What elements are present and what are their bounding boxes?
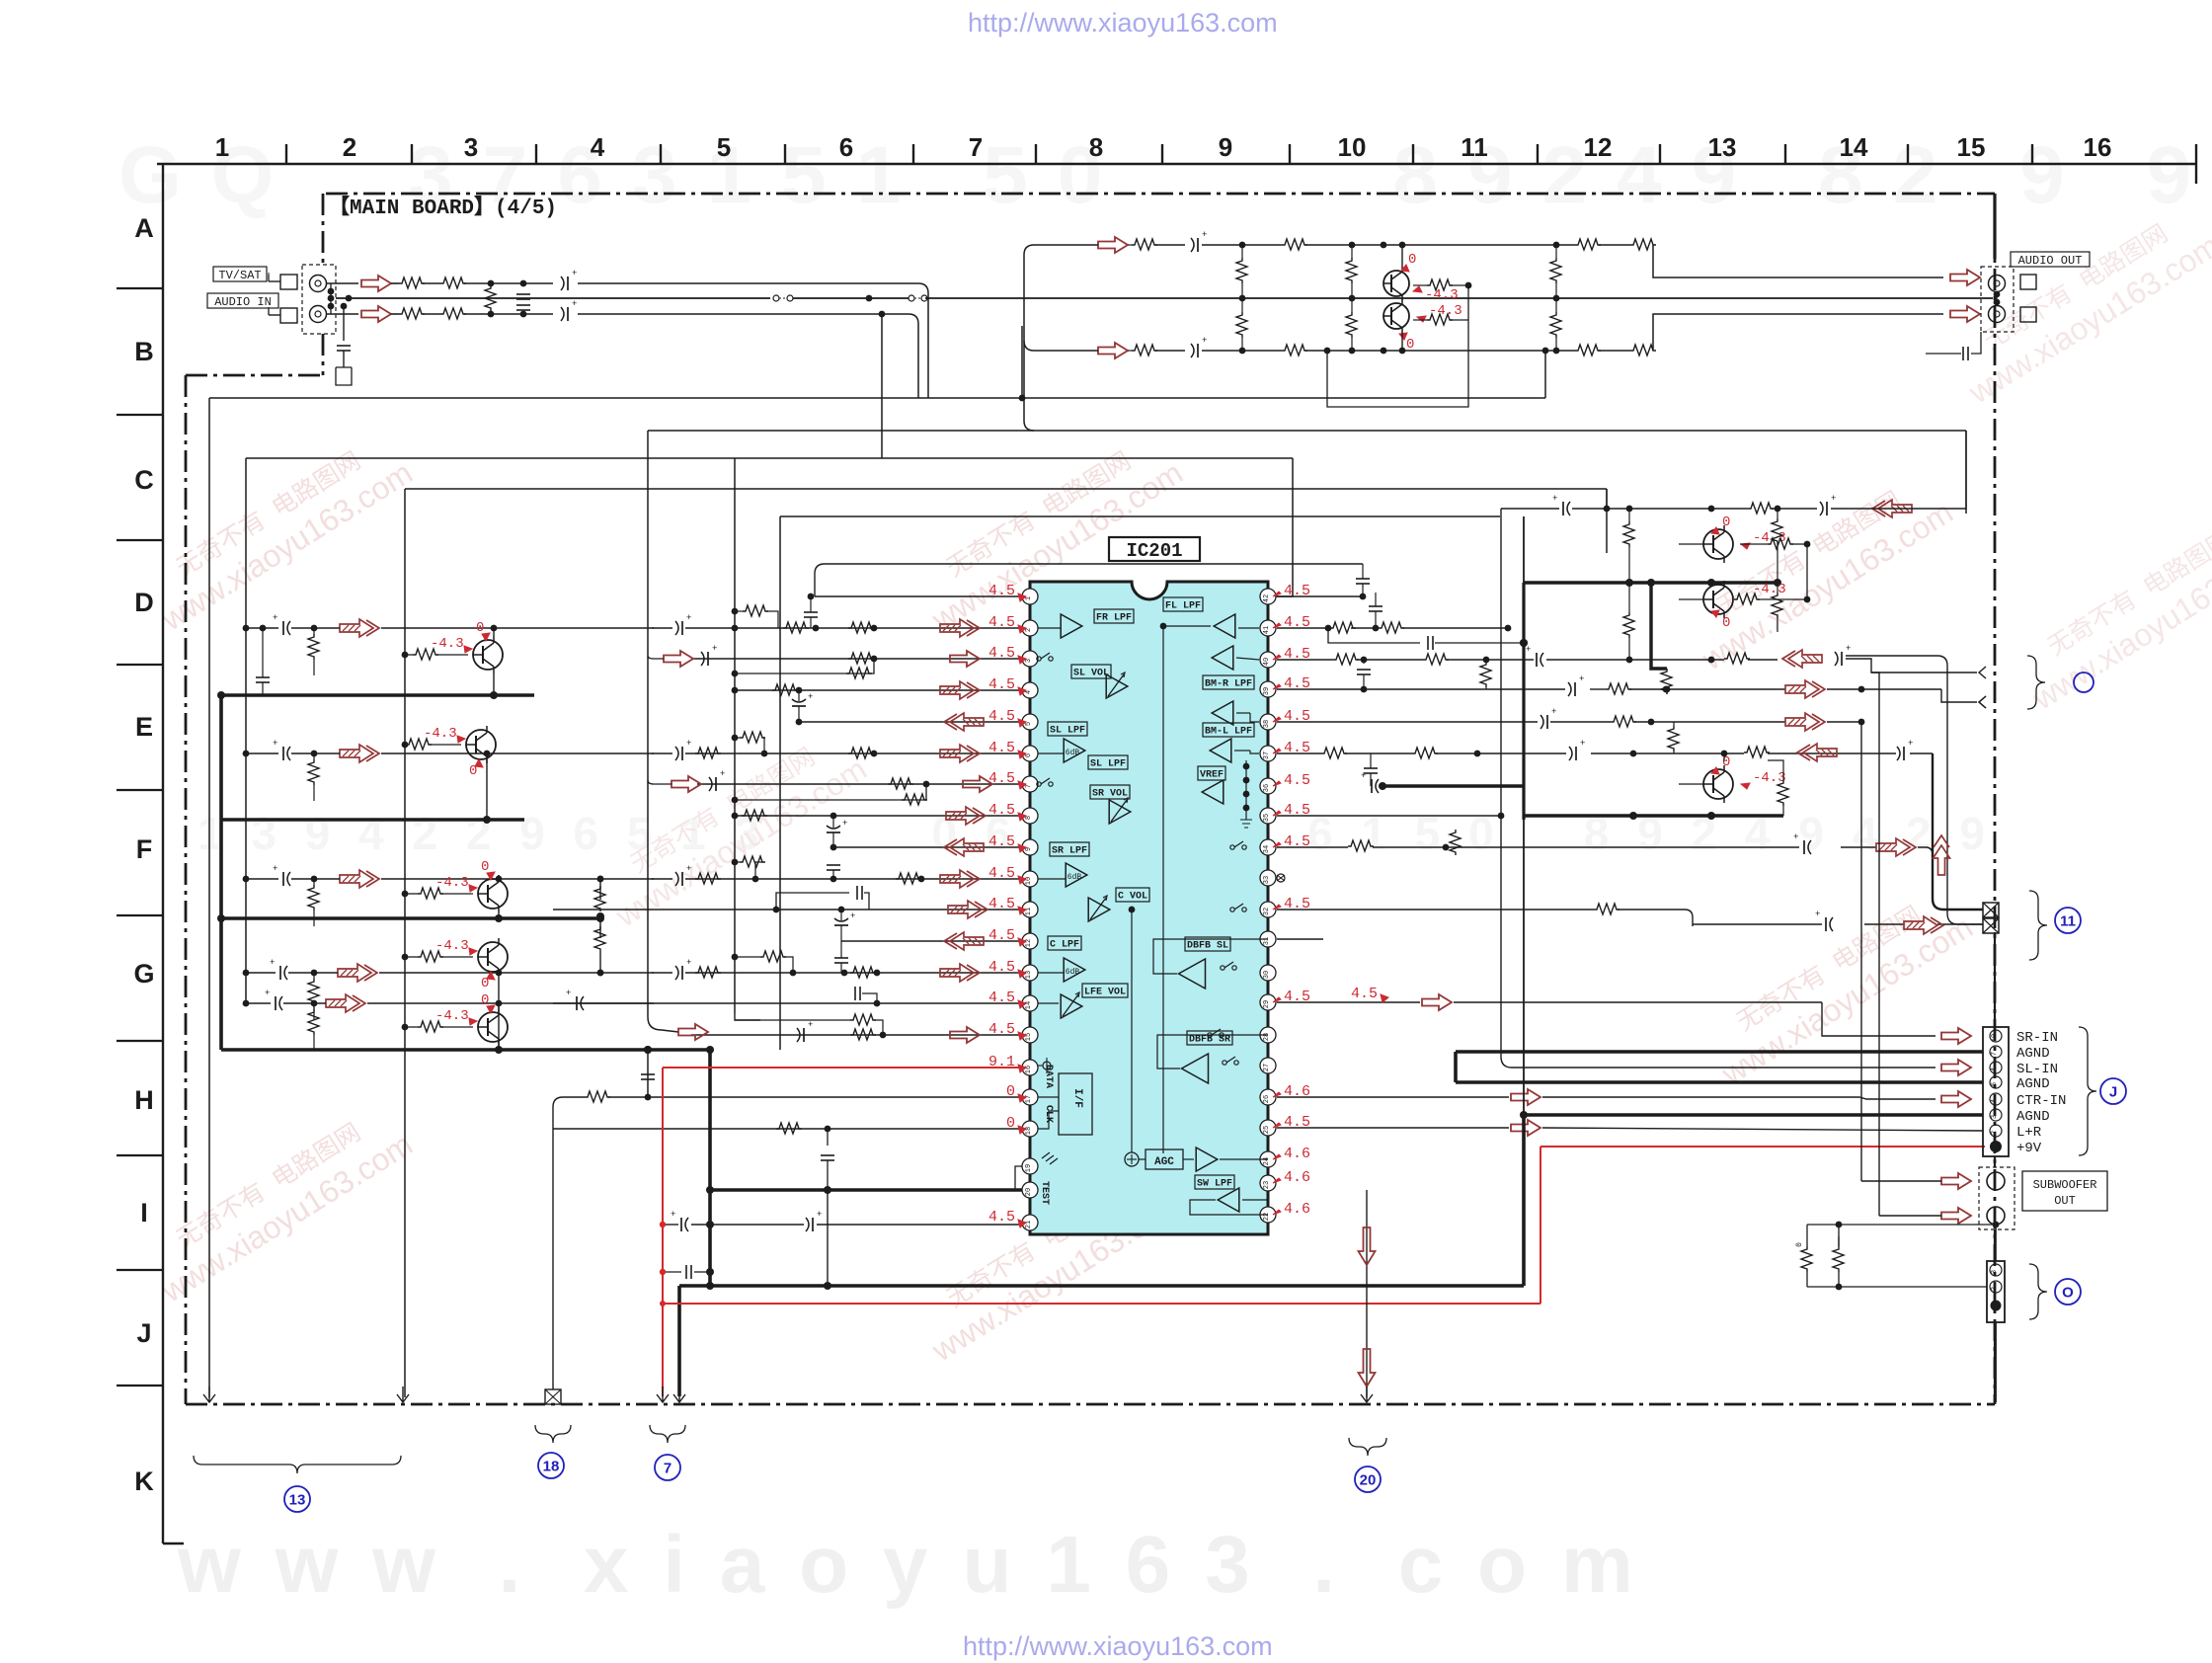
resistor shunt row F bbox=[308, 876, 319, 926]
branch pin7 down bbox=[732, 784, 926, 803]
amp FR bbox=[1061, 614, 1082, 638]
resistor pin37 a bbox=[1321, 748, 1347, 758]
svg-text:-4.3: -4.3 bbox=[435, 1008, 469, 1024]
svg-text:FL LPF: FL LPF bbox=[1165, 601, 1201, 612]
arrow pin39 hatched bbox=[1785, 680, 1825, 698]
brace E rows bbox=[2027, 656, 2045, 709]
svg-text:0: 0 bbox=[1006, 1083, 1015, 1100]
wire sw net bottom bbox=[1807, 1272, 1987, 1290]
border solid seg A bbox=[1993, 194, 1996, 259]
arrow pin3 bbox=[648, 651, 693, 667]
voltage Q5 -4.3 bbox=[435, 875, 477, 892]
wire out row2 to jack bbox=[1653, 314, 1943, 351]
switch pin34 bbox=[1230, 841, 1246, 849]
label SL LPF 2 bbox=[1088, 755, 1128, 770]
arrow down 1 bbox=[1359, 1227, 1376, 1265]
grid column number 9 bbox=[1219, 132, 1232, 162]
voltage pin 14 bbox=[988, 990, 1026, 1008]
transistor Q3 row D bbox=[473, 636, 503, 673]
circle E marker bbox=[2074, 673, 2093, 692]
svg-text:+: + bbox=[1552, 494, 1557, 504]
grid row tick C bbox=[117, 539, 163, 541]
cap pin21 b bbox=[806, 1210, 822, 1231]
svg-text:4.5: 4.5 bbox=[988, 990, 1015, 1006]
cap shunt v2 bbox=[516, 305, 530, 310]
cap pin40 shunt bbox=[1357, 657, 1371, 693]
wire input row A bbox=[391, 282, 640, 284]
svg-text:9.1: 9.1 bbox=[988, 1054, 1015, 1070]
svg-text:+: + bbox=[808, 1020, 813, 1030]
jack AUDIO IN rca bbox=[310, 306, 327, 323]
svg-text:-4.3: -4.3 bbox=[431, 636, 464, 652]
svg-text:TV/SAT: TV/SAT bbox=[218, 269, 261, 282]
red wire pin16 bbox=[663, 1067, 1022, 1069]
resistor x744 r1 bbox=[732, 605, 778, 628]
svg-text:AGND: AGND bbox=[2016, 1046, 2050, 1062]
junction pin21 bbox=[660, 1221, 714, 1228]
svg-text:+: + bbox=[686, 613, 691, 623]
svg-text:4: 4 bbox=[1025, 690, 1033, 694]
junction pin34 bbox=[1443, 844, 1450, 851]
resistor vert p1a bbox=[1236, 245, 1247, 301]
IC201 pin 41 bbox=[1260, 620, 1276, 636]
lead TV/SAT bbox=[268, 273, 270, 309]
O pin 3 bbox=[1990, 1264, 2002, 1276]
J pin CTR-IN bbox=[1990, 1093, 2002, 1105]
svg-text:+: + bbox=[572, 269, 577, 278]
bus C1 bbox=[209, 397, 1545, 399]
resistor v1800 b bbox=[1772, 583, 1782, 632]
resistor vert p2a bbox=[1346, 245, 1357, 301]
IC201 pin 2 bbox=[1022, 620, 1038, 636]
resistor pin10 b bbox=[896, 873, 921, 884]
svg-text:+: + bbox=[1815, 910, 1820, 919]
junction pin41 bbox=[1373, 625, 1512, 632]
voltage pin 23 bbox=[1273, 1169, 1310, 1186]
circled 7 bbox=[655, 1455, 680, 1480]
grid column number 1 bbox=[215, 132, 229, 162]
svg-text:+: + bbox=[566, 989, 571, 998]
svg-text:SW LPF: SW LPF bbox=[1197, 1179, 1232, 1190]
wire FL internal bbox=[1160, 623, 1211, 1153]
junction row1 bbox=[1239, 242, 1560, 249]
wire Qr2 base res bbox=[1679, 594, 1810, 604]
board border left mid bbox=[322, 334, 325, 375]
grid column number 13 bbox=[1708, 132, 1737, 162]
svg-text:+: + bbox=[1202, 336, 1207, 346]
svg-text:11: 11 bbox=[1461, 132, 1488, 162]
label AUDIO OUT bbox=[2011, 252, 2090, 268]
label LFE VOL bbox=[1082, 984, 1128, 998]
amp SL VOL bbox=[1106, 673, 1128, 698]
voltage pin 40 bbox=[1273, 646, 1310, 663]
label AGC bbox=[1145, 1149, 1183, 1169]
voltage pin 4 bbox=[988, 676, 1026, 695]
svg-text:10: 10 bbox=[1991, 1034, 1999, 1042]
arrow SR-IN bbox=[1941, 1028, 1971, 1044]
bus break right bbox=[908, 295, 927, 301]
brace 20 bbox=[1349, 1438, 1386, 1456]
red wire vertical bbox=[660, 1068, 666, 1396]
svg-text:+9V: +9V bbox=[2016, 1141, 2042, 1156]
voltage pin 10 bbox=[988, 865, 1026, 884]
wire row2 bbox=[1305, 350, 1630, 352]
svg-text:38: 38 bbox=[1263, 720, 1271, 728]
wire Qr1 collector res bbox=[1740, 538, 1810, 599]
label DATA CLK bbox=[1043, 1065, 1054, 1123]
label AUDIO IN bbox=[207, 293, 278, 309]
svg-text:6dB: 6dB bbox=[1066, 968, 1080, 977]
label DBFB SR bbox=[1187, 1031, 1232, 1046]
grid ruler tick 11 bbox=[1537, 144, 1539, 164]
wire pin37 stub bbox=[1234, 751, 1259, 753]
grid ruler tick 1 bbox=[285, 144, 287, 164]
bus bold v1474 bbox=[1454, 1052, 1458, 1082]
svg-text:17: 17 bbox=[1025, 1095, 1033, 1103]
switch pin7 bbox=[1037, 778, 1053, 786]
voltage Q out2 0 bbox=[1399, 333, 1414, 353]
cap input row G1 bbox=[270, 958, 287, 980]
svg-text:0: 0 bbox=[1795, 1242, 1804, 1247]
bus C5 bbox=[780, 515, 1500, 517]
box IF bbox=[1059, 1073, 1092, 1135]
wire v1627 down bbox=[1604, 489, 1611, 512]
cap right top bbox=[1552, 494, 1570, 515]
wire v1903 bbox=[1871, 673, 1879, 1216]
agc sum circle bbox=[1125, 1152, 1139, 1166]
wire Qr1 base bbox=[1679, 509, 1724, 544]
voltage pin 36 bbox=[1273, 772, 1310, 789]
svg-text:0: 0 bbox=[1406, 337, 1414, 353]
board border left bbox=[185, 375, 188, 1404]
wire pin29 to SRIN bbox=[1822, 1002, 1935, 1036]
arrow subwoofer 2 bbox=[1879, 1208, 1971, 1224]
resistor base Q6 bbox=[402, 951, 473, 962]
wire pin6 row bbox=[685, 752, 1022, 754]
voltage Q6 -4.3 bbox=[435, 938, 477, 955]
junction pin18 bbox=[825, 1126, 831, 1133]
wire pin17 row bbox=[553, 1097, 1022, 1389]
svg-text:4.5: 4.5 bbox=[988, 614, 1015, 631]
watermark diagonal 9 bbox=[2009, 506, 2212, 717]
arrow CTR-IN bbox=[1941, 1091, 1971, 1107]
bus bold right top bbox=[1524, 579, 1781, 587]
wire pin10 stub bbox=[1038, 878, 1066, 880]
wire pin13 stub bbox=[1038, 972, 1064, 974]
svg-text:【MAIN BOARD】(4/5): 【MAIN BOARD】(4/5) bbox=[329, 196, 557, 220]
wire pin21 row bbox=[663, 1224, 1022, 1226]
IC201 pin 39 bbox=[1260, 681, 1276, 697]
board border top bbox=[326, 193, 1995, 196]
resistor vert p1b bbox=[1236, 298, 1247, 351]
subwoofer jack 1 bbox=[1987, 1172, 2005, 1190]
voltage pin 22 bbox=[1273, 1201, 1310, 1218]
pad top-left bbox=[269, 275, 297, 289]
wire pin2 stub bbox=[1038, 627, 1061, 629]
wire pin39 row bbox=[1277, 688, 1941, 690]
svg-text:IC201: IC201 bbox=[1126, 540, 1182, 562]
svg-text:-4.3: -4.3 bbox=[1753, 582, 1786, 597]
IC201 pin 4 bbox=[1022, 682, 1038, 698]
resistor pin17 bbox=[585, 1091, 610, 1102]
svg-text:0: 0 bbox=[1722, 754, 1730, 770]
wire v408 chevron bbox=[397, 1386, 409, 1402]
svg-text:4.5: 4.5 bbox=[988, 896, 1015, 912]
voltage pin 39 bbox=[1273, 675, 1310, 692]
amp FL bbox=[1214, 614, 1235, 638]
wire subwoofer down bbox=[1995, 1225, 1997, 1261]
svg-text:32: 32 bbox=[1263, 908, 1271, 915]
voltage pin 1 bbox=[988, 583, 1026, 601]
IC201 pin 19 bbox=[1022, 1158, 1038, 1174]
junction row2 bbox=[1239, 348, 1560, 355]
voltage Qr2 -4.3 bbox=[1753, 582, 1786, 597]
resistor vert p2b bbox=[1346, 298, 1357, 351]
IC201 label bbox=[1109, 537, 1200, 562]
svg-text:40: 40 bbox=[1263, 658, 1271, 666]
svg-text:+: + bbox=[817, 1210, 822, 1220]
svg-text:12: 12 bbox=[1025, 939, 1033, 947]
cap mid row1 bbox=[1191, 230, 1282, 252]
wire Qr3 base bbox=[1679, 783, 1703, 785]
red wire to J bbox=[1540, 1146, 1985, 1148]
voltage pin 24 bbox=[1273, 1146, 1310, 1162]
wire E chev1 bbox=[1984, 672, 1986, 673]
jack TV/SAT rca bbox=[310, 276, 327, 292]
grid column number 8 bbox=[1089, 132, 1103, 162]
svg-text:SL-IN: SL-IN bbox=[2016, 1062, 2058, 1077]
red wire x1560 bbox=[1540, 1147, 1541, 1304]
svg-text:AUDIO OUT: AUDIO OUT bbox=[2018, 254, 2083, 268]
cap pin12-13 bbox=[834, 941, 848, 973]
cap pin4-5 bbox=[792, 690, 813, 722]
arrow up hatched right bbox=[1934, 835, 1950, 875]
resistor right top bbox=[1748, 503, 1774, 514]
cap pin36 upper bbox=[1364, 753, 1378, 786]
svg-text:C VOL: C VOL bbox=[1118, 892, 1147, 903]
svg-text:11: 11 bbox=[1025, 908, 1033, 915]
svg-text:13: 13 bbox=[289, 1492, 306, 1509]
bus break left bbox=[773, 295, 793, 301]
wire v1885 bbox=[1860, 722, 1862, 1181]
transistor Q4 row E bbox=[466, 726, 496, 763]
IC201 pin 38 bbox=[1260, 714, 1276, 730]
svg-text:+: + bbox=[273, 739, 277, 749]
watermark url bottom bbox=[963, 1631, 1273, 1661]
svg-text:AGND: AGND bbox=[2016, 1076, 2050, 1092]
svg-text:4.6: 4.6 bbox=[1284, 1201, 1310, 1218]
svg-text:H: H bbox=[134, 1085, 154, 1115]
svg-text:+: + bbox=[1202, 230, 1207, 240]
O pin 1 bbox=[1991, 1301, 2002, 1311]
svg-text:22: 22 bbox=[1263, 1213, 1271, 1221]
grid row letter J bbox=[136, 1318, 151, 1348]
IC201 pin 1 bbox=[1022, 589, 1038, 604]
svg-text:B: B bbox=[134, 337, 154, 366]
label VREF bbox=[1198, 766, 1225, 781]
svg-text:+: + bbox=[671, 1210, 675, 1220]
arrow pin2 bbox=[940, 619, 980, 637]
transistor Q out2 bbox=[1383, 299, 1409, 333]
label DBFB SL bbox=[1185, 937, 1230, 952]
svg-text:F: F bbox=[136, 834, 153, 864]
grid column number 6 bbox=[839, 132, 853, 162]
svg-text:A: A bbox=[134, 213, 154, 243]
grid column number 15 bbox=[1957, 132, 1986, 162]
voltage pin 26 bbox=[1273, 1083, 1310, 1100]
svg-text:3: 3 bbox=[1991, 1270, 1999, 1274]
grid row letter A bbox=[134, 213, 154, 243]
arrow pin15 bbox=[678, 1024, 711, 1040]
IC201 pin 40 bbox=[1260, 652, 1276, 668]
svg-text:18: 18 bbox=[1025, 1127, 1033, 1135]
svg-text:7: 7 bbox=[1991, 1052, 1999, 1056]
branch pin10 up bbox=[732, 856, 765, 879]
svg-text:31: 31 bbox=[1263, 937, 1271, 945]
connector J box bbox=[1983, 1027, 2009, 1156]
arrow pin3b bbox=[950, 651, 980, 667]
grid row tick J bbox=[117, 1385, 163, 1386]
J label AGND bbox=[2016, 1109, 2050, 1125]
svg-text:DATA: DATA bbox=[1043, 1065, 1054, 1088]
bold L x1672 bbox=[1651, 583, 1667, 669]
internal wire DBFB SR bbox=[1157, 1035, 1268, 1069]
wire pin32 row bbox=[1277, 910, 1983, 926]
wire pin38 row bbox=[1277, 721, 1861, 723]
svg-text:3: 3 bbox=[464, 132, 478, 162]
svg-text:+: + bbox=[1846, 644, 1851, 654]
amp DBFB SR bbox=[1182, 1054, 1209, 1083]
voltage pin 3 bbox=[988, 645, 1026, 664]
voltage pin 5 bbox=[988, 708, 1026, 727]
IC201 pin 21 bbox=[1022, 1215, 1038, 1230]
resistor input A2 bbox=[440, 277, 466, 288]
cap pin32 series bbox=[1815, 910, 1833, 931]
svg-text:9: 9 bbox=[1025, 847, 1033, 851]
wire input row E bbox=[243, 751, 654, 757]
svg-text:16: 16 bbox=[1025, 1066, 1033, 1073]
junction pin4 bbox=[796, 687, 803, 694]
svg-text:0: 0 bbox=[1722, 515, 1730, 530]
voltage pin 12 bbox=[988, 927, 1026, 946]
svg-text:41: 41 bbox=[1263, 626, 1271, 634]
wire v1520 bbox=[1501, 509, 1935, 1068]
IC201 pin 7 bbox=[1022, 776, 1038, 792]
arrow pin38 hatched bbox=[1785, 713, 1825, 731]
cap input row E bbox=[273, 739, 290, 760]
switch pin32 bbox=[1230, 904, 1246, 911]
resistor pin41 a bbox=[1330, 622, 1356, 633]
cap pin40 right bbox=[1835, 644, 1851, 666]
svg-text:L+R: L+R bbox=[2016, 1125, 2042, 1141]
svg-text:7: 7 bbox=[969, 132, 983, 162]
cap pin39 series bbox=[1568, 674, 1584, 696]
svg-text:16: 16 bbox=[2084, 132, 2112, 162]
svg-text:29: 29 bbox=[1263, 1000, 1271, 1008]
IC201 pin 34 bbox=[1260, 839, 1276, 855]
watermark ghost url bottom large bbox=[177, 1520, 1639, 1610]
voltage Q out1 -4.3 bbox=[1413, 286, 1459, 303]
svg-text:6: 6 bbox=[1025, 753, 1033, 757]
svg-text:4: 4 bbox=[1991, 1068, 1999, 1071]
svg-text:1: 1 bbox=[1025, 596, 1033, 600]
resistor input A1 bbox=[399, 277, 425, 288]
bus thick E bbox=[221, 816, 524, 824]
arrow pin34 hatched bbox=[1876, 838, 1916, 856]
label TEST bbox=[1039, 1181, 1050, 1205]
svg-text:+: + bbox=[1579, 674, 1584, 684]
resistor sw net a bbox=[1795, 1242, 1812, 1272]
amp SL LPF bbox=[1064, 739, 1085, 762]
svg-text:OUT: OUT bbox=[2054, 1194, 2076, 1208]
grid row tick H bbox=[117, 1154, 163, 1156]
wire v1991 down bbox=[1871, 431, 1966, 509]
bus C2 right drop bbox=[1965, 431, 1967, 514]
arrow audio out top bbox=[1950, 270, 1980, 285]
svg-text:4.5: 4.5 bbox=[988, 740, 1015, 756]
resistor pin40 a bbox=[1333, 654, 1359, 665]
J pin AGND bbox=[1990, 1046, 2002, 1058]
switch DBFB SR bbox=[1223, 1057, 1238, 1065]
amp VREF bbox=[1202, 780, 1224, 804]
svg-text:19: 19 bbox=[1025, 1164, 1033, 1172]
arrow pin37 hatched bbox=[1797, 744, 1837, 761]
IC201 pin 6 bbox=[1022, 746, 1038, 761]
board border right bbox=[1994, 194, 1997, 1404]
main board title bbox=[329, 196, 557, 220]
wire out row1 to jack bbox=[1653, 245, 1943, 277]
wire right top row bbox=[1501, 508, 1871, 510]
J label AGND bbox=[2016, 1046, 2050, 1062]
junction pin10 bbox=[597, 876, 925, 883]
cap shunt v1 bbox=[516, 294, 530, 299]
amp SR LPF bbox=[1066, 863, 1087, 887]
IC201 pin 15 bbox=[1022, 1027, 1038, 1043]
wire pin39 end bbox=[1941, 689, 1977, 702]
resistor pin6 a bbox=[695, 748, 721, 758]
grid ruler tick 2 bbox=[411, 144, 413, 164]
grid row tick G bbox=[117, 1040, 163, 1042]
amp BM-R bbox=[1212, 701, 1233, 725]
IC201 pin 10 bbox=[1022, 871, 1038, 887]
bus C3 right drop bbox=[1268, 458, 1293, 596]
resistor base Q3 bbox=[402, 649, 468, 660]
wire pin35 row bbox=[1277, 813, 1504, 820]
resistor pin40 shunt bbox=[1480, 662, 1491, 689]
watermark diagonal 5 bbox=[908, 1157, 1189, 1369]
svg-text:5: 5 bbox=[1991, 1082, 1999, 1086]
svg-text:-4.3: -4.3 bbox=[424, 726, 457, 742]
voltage Q7 -4.3 bbox=[435, 1008, 477, 1025]
wire row1 bbox=[1305, 244, 1654, 246]
resistor shunt row D bbox=[308, 625, 319, 675]
wire input row G2 bbox=[243, 1000, 654, 1007]
resistor vert p3b bbox=[1550, 298, 1561, 351]
transistor Q right3 bbox=[1703, 765, 1733, 803]
transistor Q right1 bbox=[1703, 525, 1733, 563]
grid column number 7 bbox=[969, 132, 983, 162]
watermark diagonal 7 bbox=[592, 723, 873, 934]
svg-text:http://www.xiaoyu163.com: http://www.xiaoyu163.com bbox=[968, 8, 1278, 38]
svg-text:4.5: 4.5 bbox=[988, 645, 1015, 662]
wire pin19-20 bracket bbox=[1015, 1166, 1022, 1190]
wire x1688 down bbox=[1664, 686, 1671, 694]
svg-text:0: 0 bbox=[1006, 1115, 1015, 1132]
pin16 level symbol bbox=[1038, 1058, 1051, 1073]
jack junction dots bbox=[328, 288, 335, 310]
grid row letter G bbox=[133, 959, 154, 989]
resistor shunt row G1 bbox=[308, 970, 319, 1020]
